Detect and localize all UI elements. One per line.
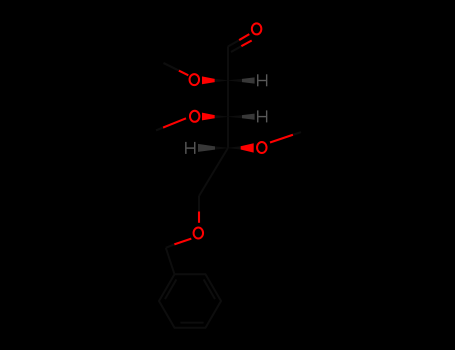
wire: C3-C4 backbone bond (227, 116, 229, 148)
wedge bond C2-O2, black half (toward C2) (215, 79, 228, 82)
O4 label (OMe oxygen, row 3) (257, 142, 267, 153)
O2 label (OMe oxygen, row 1) (190, 74, 200, 85)
C1=O double bond inner line, O half (red) (241, 41, 251, 47)
O3-CH3 bond, C half (black) (156, 128, 163, 131)
wedge bond C2-O2, red half (toward O) (202, 76, 215, 84)
wire: C1-C2 backbone bond (227, 47, 229, 81)
carbonyl O (aldehyde oxygen label) (252, 23, 262, 34)
H label on C3 (257, 110, 258, 122)
C1=O double bond outer line, O half (red) (239, 34, 249, 40)
wire: C2-C3 backbone bond (227, 80, 229, 116)
benzene ring inner double bond 1 (204, 279, 215, 299)
C1=O double bond inner line, C half (black) (231, 46, 241, 52)
benzene ring inner double bond 2 (180, 322, 203, 324)
O4-CH3 bond, C half (black) (293, 132, 301, 135)
wire: C5-O5 bond, O half (red) (198, 212, 200, 223)
benzene ring inner double bond 3 (165, 279, 176, 299)
O4-CH3 bond, O half (red) (270, 135, 293, 143)
wedge bond C4-H, black half (toward C4) (215, 146, 228, 149)
O3-CH3 bond, O half (red) (163, 118, 186, 127)
O5-CH2 bond, O half (red) (174, 239, 191, 245)
H label on C4 (185, 142, 186, 154)
wedge bond C3-O3, black half (toward C3) (215, 115, 228, 118)
wire: C4-C5 backbone bond (black, nearly invisible) (199, 148, 228, 196)
O3 label (OMe oxygen, row 2) (190, 111, 200, 122)
wedge bond C4-O4, black half (toward C4) (228, 146, 241, 149)
benzene ring of benzyl group (black, nearly invisible) (159, 274, 221, 328)
wedge bond C2-H, black half (toward C2) (228, 79, 242, 82)
O5-CH2 bond, C half (black) (166, 244, 175, 247)
O2-CH3 bond, C half (black) (164, 63, 179, 71)
wedge bond C3-H, black half (toward C3) (228, 115, 242, 118)
O2-CH3 bond, O half (red) (179, 71, 189, 76)
wedge bond C4-H, gray half (toward H) (198, 144, 215, 152)
wedge bond C4-O4, red half (toward O) (241, 143, 254, 152)
wire: C5-O5 bond, C half (black) (198, 196, 200, 212)
wedge bond C2-H, gray half (toward H) (242, 77, 255, 83)
O5 label (benzyl ether oxygen) (194, 228, 204, 239)
wedge bond C3-H, gray half (toward H) (242, 114, 255, 120)
wire: CH2-phenyl ipso bond (black) (166, 248, 175, 274)
H label on C2 (257, 74, 258, 86)
wedge bond C3-O3, red half (toward O) (202, 113, 215, 121)
C1=O double bond outer line, C half (black) (228, 40, 239, 46)
